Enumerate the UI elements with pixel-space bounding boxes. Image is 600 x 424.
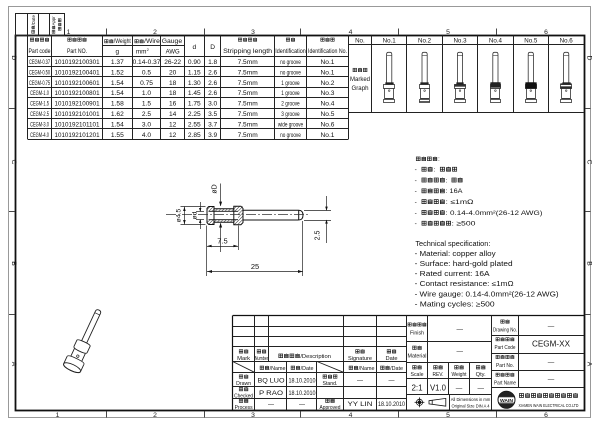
svg-text:2.5: 2.5 [142,111,151,118]
svg-text:1.37: 1.37 [111,59,124,66]
svg-text:6: 6 [544,412,548,419]
svg-text:No.4: No.4 [321,101,335,108]
svg-text::: : [434,167,436,174]
svg-text:/Name: /Name [359,366,375,372]
svg-text:No.4: No.4 [489,38,503,45]
svg-text:1010192100601: 1010192100601 [55,80,100,87]
svg-text:No.1: No.1 [321,132,335,139]
svg-text:1.54: 1.54 [111,122,124,129]
svg-text:øD: øD [212,184,219,193]
svg-text:7.5mm: 7.5mm [238,80,259,87]
svg-text:D: D [210,44,215,51]
svg-text:d: d [192,44,196,51]
svg-text:0.14-0.37: 0.14-0.37 [133,59,161,66]
svg-text:XIAMEN WAIN ELECTRICAL CO.LTD: XIAMEN WAIN ELECTRICAL CO.LTD [519,403,579,408]
svg-text:18.10.2010: 18.10.2010 [289,377,316,384]
svg-text:CEGM-0.75: CEGM-0.75 [29,80,50,87]
svg-text:No.5: No.5 [321,111,335,118]
svg-text:Technical specification:: Technical specification: [415,241,490,248]
svg-text:7.5mm: 7.5mm [238,111,259,118]
svg-text:No.6: No.6 [560,38,574,45]
svg-text:D: D [10,55,17,60]
svg-text:YY LIN: YY LIN [348,401,373,408]
svg-text:g: g [116,48,120,55]
svg-text:—: — [548,377,555,384]
svg-text:1.75: 1.75 [188,101,201,108]
svg-text:-: - [415,221,417,228]
svg-text:mm: mm [136,48,147,55]
svg-text:-: - [415,199,417,206]
svg-text:1: 1 [67,29,71,36]
svg-text:1.52: 1.52 [111,69,124,76]
svg-text:—: — [299,402,305,408]
svg-text:7.5mm: 7.5mm [238,122,259,129]
svg-text:Mark: Mark [237,356,250,362]
svg-text:0.5: 0.5 [142,69,151,76]
svg-text:- Contact resistance: ≤1mΩ: - Contact resistance: ≤1mΩ [415,281,514,288]
svg-text:BQ LUO: BQ LUO [258,377,285,384]
svg-text:-: - [415,177,417,184]
svg-text:Part Name: Part Name [494,381,516,387]
svg-text:Stripping length: Stripping length [223,48,272,55]
svg-text:No.6: No.6 [321,122,335,129]
svg-text:20: 20 [169,69,177,76]
svg-text:CEGM-1.5: CEGM-1.5 [30,101,49,108]
svg-text:4.0: 4.0 [142,132,151,139]
svg-text:REV.: REV. [433,372,444,378]
svg-text:1010192100801: 1010192100801 [55,90,100,97]
svg-text:CEGM-0.37: CEGM-0.37 [29,59,50,66]
svg-text:C: C [10,160,17,165]
svg-text:7.5: 7.5 [217,237,227,246]
svg-text:18: 18 [169,90,177,97]
svg-text:2.6: 2.6 [208,80,217,87]
svg-text:: ≥500: : ≥500 [452,221,477,228]
svg-text:12: 12 [169,122,177,129]
svg-text:—: — [456,327,463,334]
svg-text:1010192100301: 1010192100301 [55,59,100,66]
svg-text:-: - [415,167,417,174]
svg-text:1.0: 1.0 [142,90,151,97]
svg-text:3: 3 [251,29,255,36]
svg-text:No.1: No.1 [321,59,335,66]
svg-text:1 groove: 1 groove [281,90,300,97]
svg-text:CEGM-2.5: CEGM-2.5 [30,111,49,118]
svg-text:Material: Material [408,353,427,359]
svg-text:3.7: 3.7 [208,122,217,129]
svg-text:7.5mm: 7.5mm [238,132,259,139]
svg-text:ø4.5: ø4.5 [175,208,182,222]
svg-text:- Mating cycles: ≥500: - Mating cycles: ≥500 [415,301,495,308]
svg-text:2.55: 2.55 [188,122,201,129]
svg-text:Part NO.: Part NO. [67,48,87,55]
svg-text:18.10.2010: 18.10.2010 [378,401,405,408]
svg-text:/Date: /Date [31,15,36,26]
svg-text:1010192101001: 1010192101001 [55,111,100,118]
svg-text:7.5mm: 7.5mm [238,69,259,76]
svg-text:5: 5 [446,29,450,36]
svg-text:1.30: 1.30 [188,80,201,87]
svg-text:No.2: No.2 [321,80,335,87]
svg-text:-: - [415,188,417,195]
svg-text:Process: Process [235,405,253,411]
svg-text:2.5: 2.5 [314,231,321,241]
svg-text:2: 2 [153,29,157,36]
svg-text:14: 14 [169,111,177,118]
svg-text:Marked: Marked [350,76,371,83]
svg-text:B: B [585,261,592,266]
svg-text:CEGM-3.0: CEGM-3.0 [30,122,49,129]
svg-text:/Name: /Name [270,366,286,372]
svg-text:1.62: 1.62 [111,111,124,118]
svg-text:3.0: 3.0 [142,122,151,129]
svg-text:No.3: No.3 [453,38,467,45]
svg-text:2: 2 [153,412,157,419]
svg-text:1.58: 1.58 [111,101,124,108]
svg-text:2 groove: 2 groove [281,101,300,108]
svg-text:AWG: AWG [166,48,180,55]
svg-text:0.75: 0.75 [140,80,153,87]
svg-text:No.: No. [355,38,365,45]
svg-text:4: 4 [349,412,353,419]
svg-text:/Weight: /Weight [114,38,131,45]
svg-text:3: 3 [251,412,255,419]
svg-text:2:1: 2:1 [411,383,423,392]
svg-text:A: A [585,362,592,367]
svg-text:—: — [389,379,395,385]
svg-text:CEGM-0.50: CEGM-0.50 [29,69,50,76]
svg-text:All Dimensions in mm: All Dimensions in mm [451,397,491,402]
svg-text:D: D [585,55,592,60]
svg-text:—: — [548,324,555,331]
svg-text:0.90: 0.90 [188,59,201,66]
svg-text:no groove: no groove [280,69,301,76]
svg-text:Part No.: Part No. [496,363,514,369]
svg-text:/Description: /Description [300,354,331,360]
svg-text:Original Size DIN A 4: Original Size DIN A 4 [452,403,490,408]
svg-text:Identification No.: Identification No. [308,48,347,55]
svg-text:: ≤1mΩ: : ≤1mΩ [446,199,474,206]
svg-text:3.9: 3.9 [208,132,217,139]
svg-text:C: C [585,160,592,165]
svg-text:3 groove: 3 groove [281,111,300,118]
svg-text:P RAO: P RAO [259,390,283,397]
svg-text:12: 12 [169,132,177,139]
svg-text:25: 25 [251,262,259,271]
svg-text:1.54: 1.54 [111,90,124,97]
svg-text:—: — [456,385,463,392]
svg-text:4: 4 [349,29,353,36]
svg-text:Qty.: Qty. [476,372,486,378]
svg-text:1: 1 [56,412,60,419]
svg-text:WAIN: WAIN [500,398,514,404]
svg-text:1.8: 1.8 [208,59,217,66]
svg-text:Weight: Weight [452,372,468,378]
svg-text:CEGM-4.0: CEGM-4.0 [30,132,49,139]
svg-text:—: — [456,349,463,356]
svg-text:1010192100401: 1010192100401 [55,69,100,76]
svg-text:Approved: Approved [320,405,341,411]
svg-text:wide groove: wide groove [277,122,303,129]
svg-text:1 groove: 1 groove [281,80,300,87]
svg-text:-: - [415,210,417,217]
svg-text:3.0: 3.0 [208,101,217,108]
svg-text:Checked: Checked [234,393,253,399]
svg-text:1.5: 1.5 [142,101,151,108]
svg-text:/Wire Gauge: /Wire Gauge [144,38,183,45]
svg-text:Graph: Graph [352,85,370,92]
svg-text:1010192101201: 1010192101201 [55,132,100,139]
svg-text:5: 5 [446,412,450,419]
svg-text:18: 18 [169,80,177,87]
svg-text:- Rated current: 16A: - Rated current: 16A [415,271,490,278]
svg-text:1010192101101: 1010192101101 [55,122,100,129]
svg-text:2.25: 2.25 [188,111,201,118]
svg-text:ød: ød [192,211,199,219]
svg-text:Part Code: Part Code [495,345,516,351]
svg-text:Part code: Part code [29,48,51,55]
svg-text:—: — [548,359,555,366]
svg-text:—: — [357,379,363,385]
svg-text:- Surface: hard-gold plated: - Surface: hard-gold plated [415,261,513,268]
svg-text:2.6: 2.6 [208,69,217,76]
svg-text:A: A [10,362,17,367]
svg-text:Finish: Finish [410,330,424,336]
svg-text::: : [446,177,448,184]
svg-text:6: 6 [544,29,548,36]
svg-text:7.5mm: 7.5mm [238,101,259,108]
svg-text:1.54: 1.54 [111,80,124,87]
svg-text:2.6: 2.6 [208,90,217,97]
svg-text:Appr: Appr [51,16,56,26]
svg-text:no groove: no groove [280,132,301,139]
svg-text:Drawn: Drawn [236,381,251,387]
svg-text::: : [438,156,440,163]
svg-text:Identification: Identification [275,48,306,55]
svg-text:3.5: 3.5 [208,111,217,118]
svg-text:7.5mm: 7.5mm [238,59,259,66]
svg-text:no groove: no groove [280,59,301,66]
svg-text:2.85: 2.85 [188,132,201,139]
svg-text:No.1: No.1 [383,38,397,45]
svg-text:No.1: No.1 [321,69,335,76]
svg-text:No.2: No.2 [418,38,432,45]
svg-text:CEGM-XX: CEGM-XX [532,340,571,349]
svg-text:1010192100901: 1010192100901 [55,101,100,108]
svg-text:/Date: /Date [390,366,403,372]
svg-text:—: — [477,385,484,392]
svg-text:: 16A: : 16A [446,188,464,195]
svg-text:18.10.2010: 18.10.2010 [289,390,316,397]
svg-text:No.3: No.3 [321,90,335,97]
svg-text:/Date: /Date [301,366,314,372]
svg-text:V1.0: V1.0 [430,383,447,392]
svg-text:: 0.14-4.0mm²(26-12 AWG): : 0.14-4.0mm²(26-12 AWG) [446,210,543,217]
svg-text:—: — [268,402,274,408]
svg-text:CEGM-1.0: CEGM-1.0 [30,90,49,97]
svg-text:Number: Number [255,356,269,362]
svg-text:1.55: 1.55 [111,132,124,139]
svg-text:- Material: copper alloy: - Material: copper alloy [415,251,497,258]
svg-text:- Wire gauge: 0.14-4.0mm²(26-1: - Wire gauge: 0.14-4.0mm²(26-12 AWG) [415,291,559,298]
svg-text:Date: Date [386,356,398,362]
svg-text:Signature: Signature [348,356,372,362]
svg-text:1.15: 1.15 [188,69,201,76]
svg-text:Drawing No.: Drawing No. [493,328,517,334]
svg-text:No.5: No.5 [524,38,538,45]
svg-text:B: B [10,261,17,266]
svg-text:Scale: Scale [411,372,424,378]
svg-text:Stand.: Stand. [323,381,338,387]
svg-text:26-22: 26-22 [164,59,181,66]
svg-text:7.5mm: 7.5mm [238,90,259,97]
svg-text:16: 16 [169,101,177,108]
svg-text:1.45: 1.45 [188,90,201,97]
